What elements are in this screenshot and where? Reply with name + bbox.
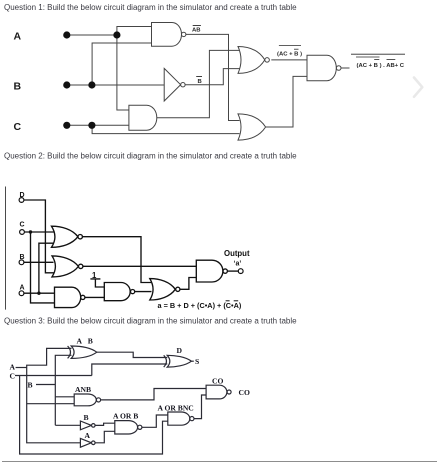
NAND gate G6: [196, 260, 223, 282]
net label B-bar: [196, 77, 202, 86]
svg-text:Question 1: Build the below ci: Question 1: Build the below circuit diag…: [4, 3, 297, 12]
svg-text:S: S: [195, 357, 199, 366]
svg-text:AB: AB: [192, 27, 201, 33]
svg-text:B: B: [14, 81, 22, 93]
inverter NA: [80, 438, 91, 447]
wire NOR G1 output to NOR G5 top input: [82, 237, 151, 283]
NOR gate G1: [52, 226, 78, 247]
node C stub: [15, 375, 92, 377]
net label (AC + B-bar): [277, 45, 302, 57]
svg-text:(AC + B ) . AB+ C: (AC + B ) . AB+ C: [357, 63, 405, 69]
wire XOR X2 output to S: [191, 360, 193, 362]
NAND gate AORB: [115, 421, 138, 434]
wire B to NAND ANB top input: [55, 396, 74, 398]
wire A to NOR G1 bottom input: [39, 243, 54, 293]
wire C to XOR X2 bottom input: [92, 364, 168, 376]
svg-text:A: A: [10, 363, 16, 372]
net label final output expression: [351, 54, 405, 69]
XOR gate X2: [164, 355, 167, 367]
wire NAND AORB output to NAND BNC top input: [142, 415, 168, 427]
NAND gate U1: [152, 23, 182, 47]
wire inverter NB output to NAND AORB top input: [95, 423, 115, 425]
svg-text:A OR B: A OR B: [113, 412, 138, 421]
node B input line: [67, 84, 164, 86]
wire B to inverter NB input: [55, 424, 81, 426]
output terminal circle: [238, 269, 243, 274]
wire NAND G3 output to NAND G4 input: [85, 296, 104, 298]
wire AND U3 output to NOR U4 top input: [157, 50, 240, 117]
inverter U2: [164, 68, 180, 101]
NAND gate BNC: [168, 412, 190, 425]
wire A to AND U3 top input: [117, 35, 129, 110]
svg-text:D: D: [20, 192, 25, 199]
junction dot C branch: [88, 122, 95, 129]
svg-text:1: 1: [92, 271, 97, 280]
svg-text:A: A: [20, 285, 25, 292]
node A terminal dot: [63, 31, 70, 38]
svg-text:CO: CO: [212, 376, 223, 385]
wire B to NAND U1 bottom input: [92, 43, 151, 85]
wire C to NAND G3 bottom input: [31, 232, 55, 303]
wire NAND U6 output: [341, 67, 350, 69]
input D terminal: [19, 198, 24, 203]
AND gate U3: [129, 105, 157, 130]
constant 1 tie wire: [90, 279, 104, 287]
wire C to bottom rail: [20, 376, 168, 455]
input B terminal: [19, 260, 24, 265]
wire A to NAND G3 top input: [24, 292, 55, 294]
wire inverter U2 output to NOR U4 bottom input: [185, 69, 239, 85]
wire B riser: [55, 355, 71, 425]
wire B to NOR G2 top input: [24, 261, 54, 263]
svg-text:B: B: [88, 336, 93, 345]
NAND gate G3: [55, 287, 81, 307]
junction dot C branch: [29, 230, 32, 233]
svg-text:B: B: [84, 413, 89, 422]
svg-text:C: C: [10, 372, 15, 381]
wire NOR G5 output to NAND G6 bottom input: [180, 278, 196, 290]
wire NAND U1 output to OR U5 top input: [186, 34, 240, 120]
wire A down branch: [27, 368, 81, 443]
svg-text:a = B + D + (C•A) + (C•A): a = B + D + (C•A) + (C•A): [158, 301, 242, 310]
svg-text:(AC + B ): (AC + B ): [277, 52, 302, 58]
wire C to OR U5 bottom input: [92, 125, 239, 133]
input C terminal: [20, 230, 25, 235]
svg-text:C: C: [20, 222, 25, 229]
svg-text:A: A: [77, 336, 83, 345]
figure bottom border: [2, 461, 437, 463]
decorative chevron: [414, 78, 422, 97]
node B terminal dot: [63, 81, 70, 88]
svg-text:Question 3: Build the below ci: Question 3: Build the below circuit diag…: [4, 317, 297, 326]
node A stub: [16, 367, 27, 369]
node C terminal dot: [63, 122, 70, 129]
OR gate U5: [238, 114, 266, 140]
net label AB-bar: [192, 26, 201, 34]
wire inverter NA output to NAND AORB bottom input: [94, 431, 114, 443]
wire NAND G6 output to terminal: [227, 270, 238, 272]
NOR gate G5: [150, 279, 176, 300]
wire XOR X1 output to XOR X2 top input: [97, 352, 168, 357]
wire C to NOR G1 top input: [25, 231, 54, 233]
node B stub: [36, 384, 55, 386]
figure left border: [5, 187, 7, 310]
wire NAND ANB output to NAND CO top input: [101, 389, 207, 400]
svg-text:B: B: [198, 79, 202, 85]
input A terminal: [19, 291, 24, 296]
NAND gate U6: [307, 55, 336, 80]
wire OR U5 output to NAND U6 bottom input: [266, 76, 307, 127]
NOR gate G2: [52, 256, 78, 277]
svg-text:D: D: [177, 346, 183, 355]
wire NAND G4 output to NOR G5 bottom input: [135, 291, 152, 293]
svg-text:A OR BNC: A OR BNC: [158, 404, 194, 413]
wire A to XOR X1 top input: [27, 348, 72, 367]
NAND gate ANB: [74, 394, 96, 406]
svg-text:B: B: [20, 254, 25, 261]
svg-text:Question 2: Build the below ci: Question 2: Build the below circuit diag…: [4, 152, 297, 161]
NAND gate G4: [104, 283, 130, 301]
equation label: [158, 301, 242, 310]
svg-text:C: C: [14, 121, 22, 133]
wire NOR G2 output to NAND G6 top input: [83, 265, 197, 267]
wire A to NAND U1 top input: [117, 27, 152, 36]
node A input line: [67, 34, 117, 36]
wire NAND BNC output to NAND CO bottom input: [194, 395, 206, 419]
NOR gate U4: [238, 47, 265, 74]
NAND gate CO: [206, 385, 227, 399]
junction dot B branch: [88, 81, 95, 88]
svg-text:Output: Output: [224, 249, 250, 258]
svg-text:B: B: [28, 381, 33, 390]
wire A to NAND ANB bottom input: [27, 403, 74, 405]
svg-text:CO: CO: [239, 388, 250, 397]
svg-text:A: A: [14, 31, 22, 43]
XOR gate X1: [68, 346, 71, 358]
node C input line: [67, 124, 129, 126]
svg-text:A: A: [85, 431, 91, 440]
svg-text:‘a’: ‘a’: [234, 261, 242, 268]
junction dot A branch: [113, 31, 120, 38]
inverter NB: [80, 421, 91, 430]
wire D to NOR G2 bottom input: [24, 200, 54, 273]
wire NOR U4 output to NAND U6 top input: [271, 59, 307, 61]
svg-text:ANB: ANB: [75, 385, 91, 394]
junction dot A branch: [37, 292, 40, 295]
